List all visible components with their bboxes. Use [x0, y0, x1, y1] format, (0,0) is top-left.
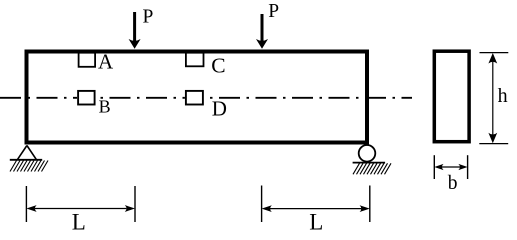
stress element square D	[186, 91, 203, 105]
roller support ground line	[353, 162, 386, 164]
svg-text:D: D	[212, 97, 227, 121]
dimension L1 extension tick left	[25, 186, 27, 222]
svg-text:C: C	[211, 54, 225, 78]
load arrow P2	[256, 14, 268, 49]
roller support (right) circle	[359, 145, 376, 162]
dimension h extension tick bottom	[479, 143, 508, 145]
pin support (left) triangle	[18, 146, 37, 160]
stress element square C	[186, 53, 204, 67]
pin support hatching	[10, 161, 48, 172]
pin support ground line	[10, 159, 42, 161]
dimension L2 extension tick right	[369, 186, 371, 223]
square B mask	[77, 90, 96, 106]
stress element square A	[79, 53, 96, 67]
dimension L1 arrow line	[26, 205, 135, 212]
roller support hatching	[353, 163, 391, 174]
dimension h extension tick top	[480, 52, 509, 54]
cross-section rectangle	[434, 51, 469, 142]
dimension b extension tick right	[467, 155, 469, 179]
svg-text:P: P	[143, 6, 154, 27]
svg-text:b: b	[448, 173, 458, 194]
beam outline	[27, 52, 368, 143]
svg-text:A: A	[98, 49, 114, 73]
svg-text:B: B	[99, 97, 111, 117]
dimension L2 extension tick left	[261, 186, 263, 223]
svg-text:h: h	[498, 85, 508, 107]
svg-text:P: P	[268, 1, 279, 22]
svg-text:L: L	[309, 209, 323, 234]
centerline (neutral axis, dash-dot)	[0, 97, 412, 99]
dimension b extension tick left	[433, 155, 435, 179]
dimension h arrow line	[488, 53, 497, 143]
dimension L2 arrow line	[262, 205, 370, 212]
svg-text:L: L	[72, 209, 86, 234]
dimension L1 extension tick right	[134, 186, 136, 222]
load arrow P1	[129, 12, 141, 49]
square D mask	[185, 90, 204, 106]
stress element square B	[78, 91, 95, 105]
dimension b arrow line	[434, 164, 467, 170]
